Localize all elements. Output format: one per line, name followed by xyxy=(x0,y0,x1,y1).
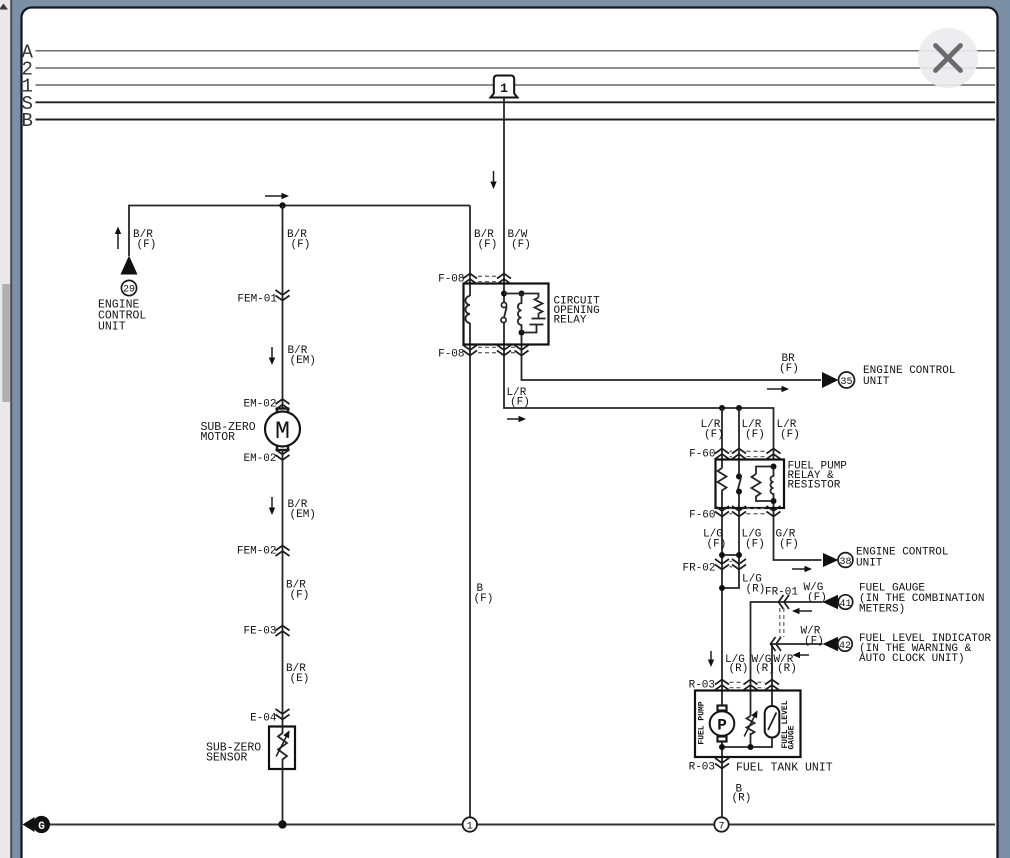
label wire L/G R tank xyxy=(725,654,748,675)
wire gauge bottom link xyxy=(722,738,772,748)
motor M1 sub-zero motor xyxy=(265,409,300,451)
scrollbar thumb xyxy=(2,284,10,402)
gauge fuel level gauge xyxy=(765,706,780,738)
svg-text:(F): (F) xyxy=(807,592,827,604)
wire relay resistor leg xyxy=(721,408,723,468)
arrow left on W/G wire xyxy=(792,608,812,614)
resistor R2 fuel pump relay xyxy=(718,468,727,494)
connector FR-02 mark a xyxy=(715,559,729,570)
label wire B/R F left xyxy=(133,229,156,251)
connector F-08 upper dashes xyxy=(478,276,496,281)
svg-text:(R): (R) xyxy=(777,663,797,675)
connector R-03 lower mark xyxy=(715,758,729,769)
connector F-60 lower mark a xyxy=(715,506,729,517)
svg-text:F-08: F-08 xyxy=(438,349,464,361)
arrow left on W/R wire xyxy=(793,652,810,658)
svg-text:(F): (F) xyxy=(745,539,765,551)
power tap 1 xyxy=(491,76,518,98)
label circuit opening relay xyxy=(554,296,601,327)
bus line S xyxy=(36,101,996,103)
svg-text:(F): (F) xyxy=(137,239,157,251)
label wire W/R F xyxy=(801,626,824,648)
connector FR-01 dashes xyxy=(780,608,784,637)
wire pump to ground circle 7 xyxy=(721,741,723,818)
label wire B R tank xyxy=(732,784,752,805)
svg-text:35: 35 xyxy=(840,377,852,388)
label fuel gauge xyxy=(859,583,984,616)
svg-text:(F): (F) xyxy=(704,429,724,441)
wire BR from relay coil to ECU 35 xyxy=(522,333,822,381)
node pump bottom junction xyxy=(719,744,725,750)
connector FR-02 dashes xyxy=(730,561,733,566)
label wire L/R F switch xyxy=(507,387,530,409)
svg-text:(F): (F) xyxy=(478,239,498,251)
wire tank resistor bottom xyxy=(750,733,752,747)
arrow right on G/R wire xyxy=(792,566,812,572)
close button xyxy=(918,28,978,88)
bus line 1 xyxy=(36,84,996,86)
arrow right on L/R wire xyxy=(507,416,526,422)
svg-text:UNIT: UNIT xyxy=(98,321,126,334)
connector FR-01 mark a xyxy=(779,595,790,609)
connector F-60 upper mark a xyxy=(715,449,729,460)
terminal 41 fuel gauge xyxy=(823,595,853,610)
svg-text:B: B xyxy=(22,110,33,132)
label wire L/G F a xyxy=(703,529,726,551)
svg-text:UNIT: UNIT xyxy=(863,376,890,388)
svg-text:FEM-01: FEM-01 xyxy=(237,294,277,306)
arrow up at ECU 29 lead xyxy=(115,227,121,250)
svg-text:7: 7 xyxy=(718,821,724,832)
svg-text:(F): (F) xyxy=(291,239,311,251)
wire L/G switch output merge xyxy=(724,492,739,588)
node link junction a xyxy=(719,552,725,558)
ground bus line xyxy=(48,823,995,825)
svg-text:GAUGE: GAUGE xyxy=(788,725,797,749)
connector R-03 upper dashes xyxy=(730,682,766,687)
connector F-60 lower mark c xyxy=(767,506,781,517)
wire sub-zero motor feed xyxy=(282,206,284,409)
variable resistor fuel sender xyxy=(741,709,760,738)
svg-text:FR-02: FR-02 xyxy=(682,563,715,575)
svg-text:(R): (R) xyxy=(732,793,752,805)
label sub-zero motor xyxy=(201,421,256,444)
connector E-04 mark xyxy=(276,709,290,720)
svg-text:AUTO CLOCK UNIT): AUTO CLOCK UNIT) xyxy=(859,653,965,665)
scrollbar up arrow xyxy=(0,4,8,10)
svg-text:EM-02: EM-02 xyxy=(243,453,276,465)
label fuel pump relay xyxy=(788,461,848,492)
label wire W/G F xyxy=(804,582,827,604)
node sensor ground junction xyxy=(278,820,286,828)
svg-text:RESISTOR: RESISTOR xyxy=(788,480,841,492)
fuel tank unit box xyxy=(695,691,801,758)
connector FR-01 mark b xyxy=(771,637,782,651)
wire link between pump legs xyxy=(722,554,739,556)
label wire B/R F relay xyxy=(474,229,497,251)
connector F-08 upper mark b xyxy=(497,274,511,285)
wire relay internal top link xyxy=(504,294,539,298)
svg-text:R-03: R-03 xyxy=(689,762,715,774)
label wire B/R EM upper xyxy=(288,345,316,367)
node relay top junction b xyxy=(519,291,525,297)
connector FEM-01 mark xyxy=(276,290,290,301)
label wire B/R F center xyxy=(287,229,310,251)
label wire B/W F xyxy=(508,229,531,251)
coil L1 circuit opening relay xyxy=(466,296,471,323)
svg-text:42: 42 xyxy=(839,641,851,652)
connector F-60 upper mark b xyxy=(732,449,746,460)
svg-text:(F): (F) xyxy=(804,636,824,648)
node link junction b xyxy=(736,552,742,558)
coil L3 fuel pump relay xyxy=(771,467,774,502)
label wire L/R F b xyxy=(742,419,765,441)
svg-text:(F): (F) xyxy=(510,397,530,409)
svg-text:FR-01: FR-01 xyxy=(765,587,798,599)
wire relay switch leg xyxy=(738,408,740,474)
connector EM-02 lower mark xyxy=(276,450,290,461)
svg-text:29: 29 xyxy=(123,285,135,296)
arrow right above left branch xyxy=(265,193,289,199)
wire W/R fuel level indicator line xyxy=(772,644,823,706)
switch S1 circuit opening relay xyxy=(501,302,507,322)
terminal 29 engine control unit xyxy=(121,256,138,296)
label wire L/G R mid xyxy=(742,574,765,596)
wire sensor to ground xyxy=(282,769,284,822)
svg-text:FEM-02: FEM-02 xyxy=(237,546,277,558)
label wire B/R EM lower xyxy=(288,499,316,521)
connector EM-02 upper mark xyxy=(276,399,290,410)
wire B/W from tap 1 down to relay switch xyxy=(503,98,505,303)
label wire L/G F b xyxy=(742,529,765,551)
connector F-08 lower mark a xyxy=(463,345,477,356)
bus line B xyxy=(36,119,996,121)
svg-text:(F): (F) xyxy=(779,363,799,375)
wire G/R to ECU 38 xyxy=(774,501,822,560)
pump P fuel pump xyxy=(710,706,735,742)
svg-text:M: M xyxy=(275,417,290,446)
svg-text:P: P xyxy=(717,716,727,734)
arrow down at B/R EM lower xyxy=(269,497,275,515)
node sender bottom junction xyxy=(748,744,754,750)
svg-text:UNIT: UNIT xyxy=(856,558,883,570)
capacitor C1 circuit opening relay xyxy=(524,319,546,333)
node L/R junction 1 xyxy=(719,405,725,411)
connector F-08 lower mark c xyxy=(515,345,529,356)
svg-text:(E): (E) xyxy=(290,673,310,685)
wire L/G pump feed down xyxy=(721,494,723,707)
svg-text:E-04: E-04 xyxy=(250,713,277,725)
label wire B/R E xyxy=(286,663,309,685)
svg-text:1: 1 xyxy=(500,81,508,96)
panel divider xyxy=(10,0,12,858)
svg-text:F-08: F-08 xyxy=(438,274,464,286)
label wire G/R F xyxy=(776,529,799,551)
svg-text:FE-03: FE-03 xyxy=(243,626,276,638)
terminal 42 fuel level indicator xyxy=(823,637,853,652)
node relay2 top junction xyxy=(771,464,777,470)
label wire B F xyxy=(474,583,494,605)
label engine control unit 38 xyxy=(856,547,948,570)
arrow down at tank L/G xyxy=(708,651,714,667)
wire W/G fuel gauge line xyxy=(751,602,823,716)
node left branch junction xyxy=(279,202,285,208)
svg-text:MOTOR: MOTOR xyxy=(201,431,236,444)
svg-text:FUEL TANK UNIT: FUEL TANK UNIT xyxy=(736,762,833,775)
svg-text:METERS): METERS) xyxy=(859,604,905,616)
connector FE-03 mark xyxy=(276,626,290,637)
ground connector circle 1 xyxy=(463,817,477,832)
terminal 35 engine control unit xyxy=(822,372,855,388)
resistor R3 fuel pump relay xyxy=(752,474,774,501)
svg-text:(R): (R) xyxy=(729,663,749,675)
connector FEM-02 mark xyxy=(276,546,290,557)
svg-text:SENSOR: SENSOR xyxy=(206,752,248,765)
switch S2 fuel pump relay xyxy=(736,474,742,495)
label fuel level indicator xyxy=(859,633,991,665)
connector F-60 upper dashes xyxy=(730,451,767,456)
svg-text:38: 38 xyxy=(839,557,851,568)
node L/R junction 2 xyxy=(736,405,742,411)
connector F-60 lower dashes xyxy=(730,508,767,513)
svg-text:(R): (R) xyxy=(755,663,775,675)
connector F-08 upper mark a xyxy=(463,274,477,285)
connector F-08 lower mark b xyxy=(497,345,511,356)
connector F-08 lower dashes xyxy=(478,347,515,352)
label wire W/G R tank xyxy=(752,654,775,675)
svg-text:(F): (F) xyxy=(290,590,310,602)
label wire BR F xyxy=(779,353,799,375)
node relay top junction a xyxy=(501,291,507,297)
node relay bottom junction xyxy=(519,330,525,336)
node relay2 bottom junction xyxy=(771,498,777,504)
svg-text:RELAY: RELAY xyxy=(554,315,587,327)
label sub-zero sensor xyxy=(206,742,261,765)
svg-text:(F): (F) xyxy=(780,429,800,441)
svg-text:(EM): (EM) xyxy=(290,355,316,367)
label wire B/R F mid xyxy=(286,580,309,602)
svg-text:R-03: R-03 xyxy=(689,680,715,692)
label wire L/R F c xyxy=(777,419,800,441)
arrow right on BR wire xyxy=(767,386,789,392)
arrow down at B/R EM upper xyxy=(269,347,275,365)
wire left branch horizontal xyxy=(129,206,470,257)
svg-text:(R): (R) xyxy=(746,584,766,596)
connector F-60 upper mark c xyxy=(767,449,781,460)
terminal 38 engine control unit xyxy=(823,553,853,568)
svg-text:FUEL PUMP: FUEL PUMP xyxy=(698,701,707,744)
svg-text:(F): (F) xyxy=(779,539,799,551)
svg-text:(F): (F) xyxy=(745,429,765,441)
connector R-03 upper mark b xyxy=(744,680,758,691)
label wire L/R F a xyxy=(701,419,724,441)
svg-text:(F): (F) xyxy=(707,539,727,551)
svg-text:G: G xyxy=(38,821,45,833)
wire B long vertical to ground circle 1 xyxy=(469,323,471,818)
label wire W/R R tank xyxy=(774,654,797,675)
connector F-60 lower mark b xyxy=(732,506,746,517)
op circuit opening relay box xyxy=(464,284,549,345)
bus line 2 xyxy=(36,67,996,69)
svg-text:F-60: F-60 xyxy=(689,510,715,522)
thermistor sub-zero sensor xyxy=(269,727,295,770)
wire motor to sensor xyxy=(282,450,284,727)
svg-text:F-60: F-60 xyxy=(689,449,715,461)
svg-text:EM-02: EM-02 xyxy=(243,399,276,411)
resistor R1 circuit opening relay xyxy=(535,298,543,319)
connector R-03 upper mark a xyxy=(715,680,729,691)
relay K2 fuel pump relay box xyxy=(716,460,785,509)
ground connector circle 7 xyxy=(714,817,728,832)
svg-text:(F): (F) xyxy=(474,593,494,605)
svg-text:1: 1 xyxy=(467,821,473,832)
label engine control unit 35 xyxy=(863,365,955,388)
wire relay2 bracket top xyxy=(756,467,774,475)
coil L2 circuit opening relay xyxy=(518,294,522,333)
svg-text:(F): (F) xyxy=(511,239,531,251)
arrow down on B/W feed xyxy=(490,171,496,189)
scrollbar track xyxy=(0,0,10,858)
label engine control unit 29 xyxy=(98,299,146,334)
connector FR-02 mark b xyxy=(732,559,746,570)
bus line A xyxy=(36,50,996,52)
svg-text:(EM): (EM) xyxy=(290,509,316,521)
ground symbol G xyxy=(23,816,51,833)
node merge junction xyxy=(719,585,725,591)
wire L/R from relay switch to fuel pump relay xyxy=(504,323,774,460)
connector R-03 upper mark c xyxy=(765,680,779,691)
wire B/R left vertical to relay coil xyxy=(469,206,471,297)
svg-text:41: 41 xyxy=(839,599,851,610)
